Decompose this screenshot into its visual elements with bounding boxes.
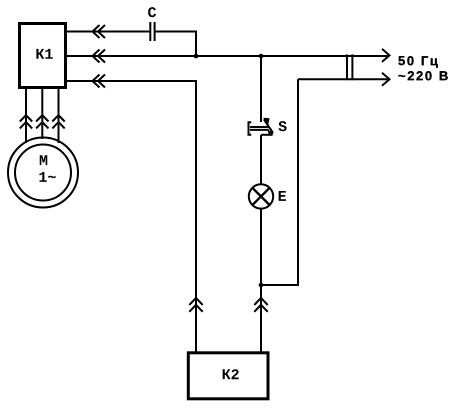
svg-text:1~: 1~ xyxy=(38,170,56,187)
svg-text:50 Гц: 50 Гц xyxy=(398,53,439,68)
svg-text:К1: К1 xyxy=(35,47,53,64)
svg-text:S: S xyxy=(278,119,287,136)
svg-text:E: E xyxy=(278,189,287,206)
svg-text:~220 В: ~220 В xyxy=(398,68,450,83)
svg-text:М: М xyxy=(39,153,48,170)
svg-text:К2: К2 xyxy=(222,367,240,384)
svg-text:C: C xyxy=(147,5,156,22)
